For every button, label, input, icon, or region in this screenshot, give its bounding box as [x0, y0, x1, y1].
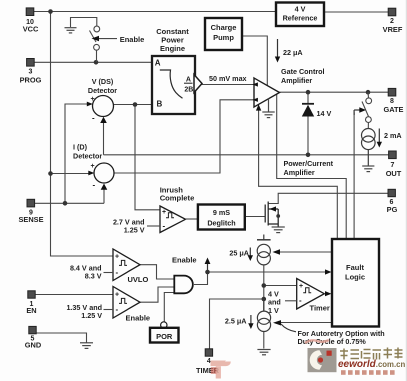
- op-amp gate control amplifier: [252, 67, 324, 107]
- svg-text:4: 4: [207, 358, 211, 365]
- svg-text:1.25 V: 1.25 V: [124, 226, 145, 235]
- arrow fault logic to 2.5uA: [273, 320, 281, 325]
- node enable distribution junction: [205, 270, 210, 275]
- arrow fault logic to 25uA: [273, 249, 281, 254]
- node VCC to I(D) junction: [48, 171, 53, 176]
- wire V(DS) output to inrush comparator: [135, 105, 160, 210]
- svg-text:Amplifier: Amplifier: [284, 168, 315, 177]
- svg-text:+: +: [162, 209, 166, 216]
- svg-text:VCC: VCC: [23, 25, 39, 34]
- svg-text:Enable: Enable: [126, 314, 151, 323]
- wire POR to AND: [164, 293, 174, 322]
- wire zener to gate line: [307, 92, 309, 103]
- wire amp lower tap to fault logic: [277, 95, 347, 240]
- node zener bottom junction: [306, 153, 311, 158]
- node zener top junction: [306, 90, 311, 95]
- wire VCC vertical rail to UVLO: [51, 12, 114, 257]
- svg-text:9 mS: 9 mS: [213, 208, 230, 217]
- block 4V reference: [276, 3, 324, 27]
- block fault logic: [332, 239, 379, 327]
- svg-text:Detector: Detector: [88, 86, 117, 95]
- current source 2.5 uA: [257, 299, 270, 332]
- svg-text:+: +: [91, 96, 95, 103]
- svg-text:-: -: [93, 181, 96, 190]
- wire I(D) output to gate amp input: [114, 100, 254, 173]
- svg-text:1.25 V: 1.25 V: [81, 311, 102, 320]
- transistor Q1 PG pulldown: [265, 202, 278, 228]
- ground (2.5uA source): [257, 350, 270, 355]
- svg-text:+: +: [115, 292, 119, 299]
- svg-text:PG: PG: [387, 205, 398, 214]
- node V(DS) output junction: [133, 102, 138, 107]
- current source 2 mA: [362, 129, 376, 167]
- ground (2mA source): [362, 166, 374, 172]
- svg-text:EN: EN: [26, 306, 36, 315]
- ground (GND pin): [80, 343, 93, 349]
- watermark eeworld: [308, 348, 406, 375]
- svg-text:Fault: Fault: [346, 263, 364, 272]
- svg-text:PROG: PROG: [20, 76, 42, 85]
- node PROG switch junction: [94, 60, 99, 65]
- wire 25uA source chain down: [263, 265, 265, 311]
- svg-text:Enable: Enable: [120, 35, 145, 44]
- comparator I(D) detector: [73, 143, 114, 190]
- pin 4 TIMER: [196, 349, 220, 375]
- wire PROG line to A input: [35, 61, 152, 63]
- svg-text:A: A: [155, 59, 161, 68]
- wire charge pump to amp top: [242, 36, 267, 87]
- comparator UVLO: [70, 249, 149, 284]
- ground (switch): [65, 28, 77, 33]
- wire amp feedback to fault logic: [259, 110, 338, 239]
- svg-text:I (D): I (D): [73, 143, 88, 152]
- pin 1 EN: [26, 291, 36, 315]
- block charge pump: [205, 18, 242, 50]
- svg-text:2B: 2B: [184, 86, 193, 93]
- svg-text:VREF: VREF: [383, 25, 403, 34]
- AND gate U2: [174, 276, 193, 294]
- comparator V(DS) detector: [87, 77, 117, 123]
- svg-text:Gate Control: Gate Control: [281, 67, 325, 76]
- wire amp output GATE line: [280, 91, 390, 93]
- wire mosfet drain to PG: [268, 193, 389, 203]
- svg-text:2 mA: 2 mA: [384, 131, 402, 140]
- wire OUT line: [104, 154, 390, 156]
- svg-text:eeworld.com.cn: eeworld.com.cn: [338, 359, 405, 370]
- wire UVLO output to AND: [140, 265, 174, 279]
- wire engine output 50mV to amp: [200, 84, 254, 86]
- svg-text:Complete: Complete: [160, 194, 195, 203]
- gate shutoff switch S2: [362, 92, 372, 128]
- svg-text:-: -: [116, 305, 119, 314]
- svg-text:22 μA: 22 μA: [283, 48, 303, 57]
- wire timer plus input: [264, 285, 297, 287]
- pin 2 VREF: [383, 8, 403, 34]
- svg-text:Timer: Timer: [310, 304, 330, 313]
- pin 10 VCC: [23, 8, 39, 34]
- node gate switch junction: [366, 90, 371, 95]
- fault logic gate arrow: [354, 107, 366, 115]
- comparator timer: [268, 279, 332, 315]
- current source 25 uA: [257, 235, 271, 265]
- svg-text:GND: GND: [25, 341, 42, 350]
- wire V(DS) output to B input: [114, 104, 152, 106]
- wire zener to out line: [307, 117, 309, 155]
- svg-text:A: A: [186, 76, 191, 83]
- svg-text:+: +: [115, 254, 119, 261]
- pin 5 GND: [25, 326, 42, 349]
- svg-text:2: 2: [390, 18, 394, 25]
- wire timer node to TIMER pin: [210, 299, 264, 349]
- svg-text:OUT: OUT: [386, 169, 402, 178]
- svg-text:GATE: GATE: [384, 105, 404, 114]
- pin 7 OUT: [386, 151, 402, 178]
- svg-text:-: -: [92, 114, 95, 123]
- wire fault logic to 25uA arrow: [280, 251, 332, 253]
- svg-text:POR: POR: [156, 332, 173, 341]
- enable up arrow: [205, 258, 211, 273]
- wire fault logic to gate switch arrow: [353, 113, 355, 240]
- wire SENSE to V(DS) plus input: [65, 104, 88, 203]
- node timer plus junction: [262, 283, 267, 288]
- wire VCC to I(D) plus input: [51, 173, 90, 175]
- enable arrow into switch: [92, 36, 100, 42]
- pin 9 SENSE: [18, 199, 43, 224]
- zener diode 14V: [302, 104, 332, 118]
- block POR: [150, 322, 179, 343]
- wire fault logic to 2.5uA arrow: [281, 322, 332, 324]
- wire I(D) minus to SENSE line: [103, 190, 105, 204]
- svg-text:Pump: Pump: [213, 33, 234, 42]
- wire EN pin line: [35, 294, 113, 296]
- arrow enable into fault logic: [325, 269, 332, 274]
- svg-text:3: 3: [28, 69, 32, 76]
- wire VCC top rail: [34, 11, 276, 13]
- svg-text:-: -: [299, 296, 302, 305]
- svg-text:Charge: Charge: [211, 23, 237, 32]
- wire deglitch output to mosfet gate: [245, 216, 265, 218]
- wire SENSE line: [35, 202, 104, 204]
- svg-text:7: 7: [391, 162, 395, 169]
- ground (amplifier): [262, 99, 274, 118]
- svg-text:+: +: [91, 163, 95, 170]
- svg-text:+: +: [299, 283, 303, 290]
- svg-text:2.5 μA: 2.5 μA: [225, 317, 247, 326]
- svg-text:14 V: 14 V: [317, 109, 332, 118]
- svg-text:Logic: Logic: [345, 273, 365, 282]
- wire GND pin to ground: [36, 333, 87, 343]
- pin 3 PROG: [20, 59, 42, 85]
- svg-text:V (DS): V (DS): [92, 77, 114, 86]
- svg-text:8.3 V: 8.3 V: [85, 272, 102, 281]
- block constant power engine: [152, 27, 202, 114]
- wire EN comparator output to AND: [140, 287, 174, 302]
- svg-text:-: -: [163, 221, 166, 230]
- wire 4V reference output to VREF: [324, 11, 389, 13]
- node VCC rail top junction: [48, 9, 53, 14]
- wire V(DS) minus to OUT line: [103, 123, 105, 155]
- wire enable node to fault logic: [208, 271, 327, 273]
- svg-text:25 μA: 25 μA: [229, 249, 249, 258]
- block 9 ms deglitch: [198, 205, 245, 230]
- enable disconnect switch S1: [71, 18, 118, 63]
- label autoretry note: [281, 324, 385, 346]
- svg-text:UVLO: UVLO: [128, 275, 149, 284]
- comparator inrush complete: [113, 185, 198, 234]
- svg-text:Power/Current: Power/Current: [284, 159, 334, 168]
- svg-text:8: 8: [390, 98, 394, 105]
- svg-text:50 mV max: 50 mV max: [209, 74, 247, 83]
- svg-text:Detector: Detector: [73, 151, 102, 160]
- wire 2.5uA to ground: [263, 332, 265, 349]
- node timer pin junction: [262, 297, 267, 302]
- pin 8 GATE: [384, 88, 404, 114]
- svg-text:B: B: [157, 99, 163, 108]
- svg-text:SENSE: SENSE: [18, 215, 43, 224]
- pin 6 PG: [387, 189, 398, 214]
- wire AND output up to enable node: [194, 272, 208, 285]
- svg-text:-: -: [116, 268, 119, 277]
- node SENSE junction: [63, 201, 68, 206]
- svg-text:Engine: Engine: [160, 44, 185, 53]
- svg-text:Reference: Reference: [283, 14, 318, 23]
- amp feedback arrow: [256, 104, 261, 110]
- comparator EN: [66, 287, 150, 323]
- svg-text:Deglitch: Deglitch: [207, 219, 235, 228]
- svg-text:4 V: 4 V: [295, 5, 306, 14]
- current annotation 22 uA: [275, 39, 303, 63]
- svg-text:Amplifier: Amplifier: [281, 76, 312, 85]
- ground (mosfet): [272, 227, 285, 233]
- watermark red scribble: [211, 340, 330, 379]
- svg-text:Enable: Enable: [172, 256, 197, 265]
